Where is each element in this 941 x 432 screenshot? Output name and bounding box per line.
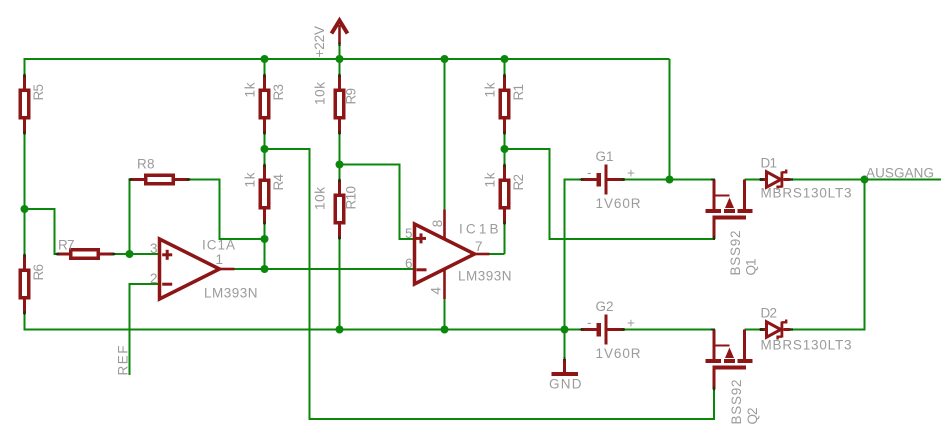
wire Q2 drain to D2 anode: [745, 328, 761, 330]
node dot R5 bottom: [21, 205, 29, 213]
wire node to R7 jog: [25, 209, 61, 254]
svg-text:Q2: Q2: [745, 408, 760, 425]
svg-text:IC1B: IC1B: [459, 222, 499, 237]
svg-text:R10: R10: [344, 186, 359, 210]
op-amp IC1A: [160, 239, 235, 299]
wire top rail +22V net: [25, 58, 670, 60]
wire D1 cathode to AUSGANG node: [790, 178, 865, 180]
wire R1 top: [503, 58, 505, 75]
svg-text:+22V: +22V: [312, 26, 327, 58]
svg-text:1: 1: [216, 252, 224, 267]
svg-text:BSS92: BSS92: [728, 231, 743, 276]
svg-text:10k: 10k: [312, 82, 327, 105]
wire R1 bottom to R2 top: [503, 134, 505, 165]
wire R10 bottom to gnd row: [338, 239, 340, 330]
svg-text:R2: R2: [511, 174, 526, 191]
wire rail right drop to G1: [668, 59, 670, 180]
svg-text:1V60R: 1V60R: [596, 196, 641, 211]
wire R4 bottom to node: [263, 224, 265, 239]
node dot IC1A output: [261, 265, 269, 273]
svg-text:R8: R8: [137, 157, 155, 172]
svg-text:R9: R9: [344, 88, 359, 105]
resistor R6: [20, 254, 29, 315]
svg-text:REF: REF: [116, 346, 131, 376]
wire +22V stem lower: [338, 44, 340, 59]
svg-text:R7: R7: [58, 238, 75, 253]
wire AUSGANG to right edge: [865, 178, 941, 180]
svg-text:IC1A: IC1A: [202, 238, 235, 253]
wire R7 to pin3: [115, 253, 160, 255]
svg-text:2: 2: [150, 271, 158, 286]
wire R1R2 tap to Q1 gate: [505, 149, 714, 239]
node dot R1R2 tap: [501, 145, 509, 153]
svg-text:BSS92: BSS92: [729, 380, 744, 425]
resistor R9: [335, 74, 344, 135]
wire G1 plus to node: [625, 178, 670, 180]
resistor R2: [500, 164, 509, 225]
svg-text:G1: G1: [596, 149, 614, 164]
node dot rail +22V: [336, 55, 344, 63]
svg-text:1k: 1k: [482, 82, 497, 97]
wire R2 bottom to pin7 row: [503, 224, 505, 254]
node dot rail R1: [501, 55, 509, 63]
svg-text:1k: 1k: [242, 82, 257, 97]
svg-text:MBRS130LT3: MBRS130LT3: [761, 186, 852, 201]
wire R4 node down to output node: [263, 239, 265, 269]
node dot gnd G2: [561, 326, 569, 334]
svg-text:LM393N: LM393N: [204, 286, 258, 301]
svg-text:10k: 10k: [312, 187, 327, 210]
svg-text:MBRS130LT3: MBRS130LT3: [761, 338, 852, 353]
wire IC1A output to IC1B pin6: [235, 268, 415, 270]
svg-text:5: 5: [405, 226, 413, 241]
wire IC1B pin7 output: [490, 253, 505, 255]
wire R9 top: [338, 58, 340, 75]
wire G1 minus lead: [565, 178, 582, 180]
wire AUSGANG node down to D2 row: [790, 180, 865, 330]
wire G2 plus to Q2 source: [625, 328, 714, 330]
ground symbol: [552, 357, 579, 374]
svg-text:3: 3: [150, 241, 158, 256]
transistor Q2: [706, 330, 753, 391]
battery G1: [580, 165, 626, 195]
wire R9R10 tap to IC1B pin5: [340, 165, 415, 240]
svg-text:R3: R3: [271, 84, 286, 101]
wire IC1B pin8 from rail: [443, 58, 445, 210]
svg-text:R6: R6: [31, 264, 46, 281]
svg-text:8: 8: [430, 220, 445, 228]
wire R3 bottom to R4 top: [263, 134, 265, 165]
wire G1 minus drop to gnd row: [563, 178, 565, 329]
svg-text:D1: D1: [761, 156, 778, 171]
wire GND stem: [563, 330, 565, 359]
svg-text:+: +: [627, 166, 635, 181]
node dot AUSGANG: [861, 176, 869, 184]
svg-text:R1: R1: [511, 84, 526, 101]
resistor R8: [129, 175, 191, 184]
wire gnd row to G2 minus: [565, 328, 582, 330]
svg-text:1k: 1k: [482, 172, 497, 187]
svg-text:6: 6: [405, 256, 413, 271]
node dot R9R10 tap: [336, 161, 344, 169]
wire R9 bottom to R10 top: [338, 134, 340, 180]
wire R8 right jog to R4 node: [190, 180, 265, 240]
svg-text:R5: R5: [31, 84, 46, 101]
node dot R3R4 tap: [261, 145, 269, 153]
svg-text:R4: R4: [271, 174, 286, 191]
wire left column R5 top: [23, 58, 25, 75]
svg-text:D2: D2: [761, 306, 778, 321]
svg-text:AUSGANG: AUSGANG: [866, 166, 934, 181]
svg-text:1k: 1k: [242, 172, 257, 187]
svg-text:4: 4: [429, 287, 444, 295]
node dot G1 plus: [666, 176, 674, 184]
svg-text:-: -: [587, 165, 592, 180]
wire IC1B pin4 to gnd row: [443, 299, 445, 330]
svg-text:1V60R: 1V60R: [596, 346, 641, 361]
wire R3 top: [263, 58, 265, 75]
svg-text:7: 7: [475, 239, 483, 254]
resistor R4: [260, 164, 269, 225]
resistor R3: [260, 74, 269, 135]
battery G2: [580, 315, 626, 345]
node dot pin3: [126, 250, 134, 258]
diode D1: [760, 170, 794, 190]
svg-text:-: -: [587, 315, 592, 330]
node dot pin4 gnd row: [441, 326, 449, 334]
op-amp IC1B: [415, 210, 490, 300]
node dot rail pin8: [441, 55, 449, 63]
wire R8 left vertical: [128, 180, 130, 255]
wire R6 bottom to gnd row: [25, 314, 565, 330]
wire node to Q1 source: [670, 178, 714, 180]
node dot R10 gnd row: [336, 326, 344, 334]
node dot rail R3: [261, 55, 269, 63]
svg-text:G2: G2: [596, 299, 614, 314]
wire Q1 drain to D1 anode: [745, 178, 761, 180]
transistor Q1: [706, 180, 753, 241]
svg-text:LM393N: LM393N: [458, 269, 512, 284]
resistor R5: [20, 74, 29, 135]
svg-text:Q1: Q1: [744, 259, 759, 276]
diode D2: [760, 320, 794, 340]
wire R6 top: [23, 209, 25, 255]
wire R5 bottom to node: [23, 134, 25, 209]
node dot R4 bottom: [261, 235, 269, 243]
svg-text:+: +: [627, 316, 635, 331]
wire pin2 to REF stub: [130, 284, 160, 375]
resistor R10: [335, 179, 344, 240]
wire R3R4 tap to Q2 gate long run: [265, 149, 715, 419]
resistor R1: [500, 74, 509, 135]
resistor R7: [56, 250, 116, 259]
svg-text:GND: GND: [549, 377, 582, 392]
supply +22V symbol: [332, 21, 348, 47]
